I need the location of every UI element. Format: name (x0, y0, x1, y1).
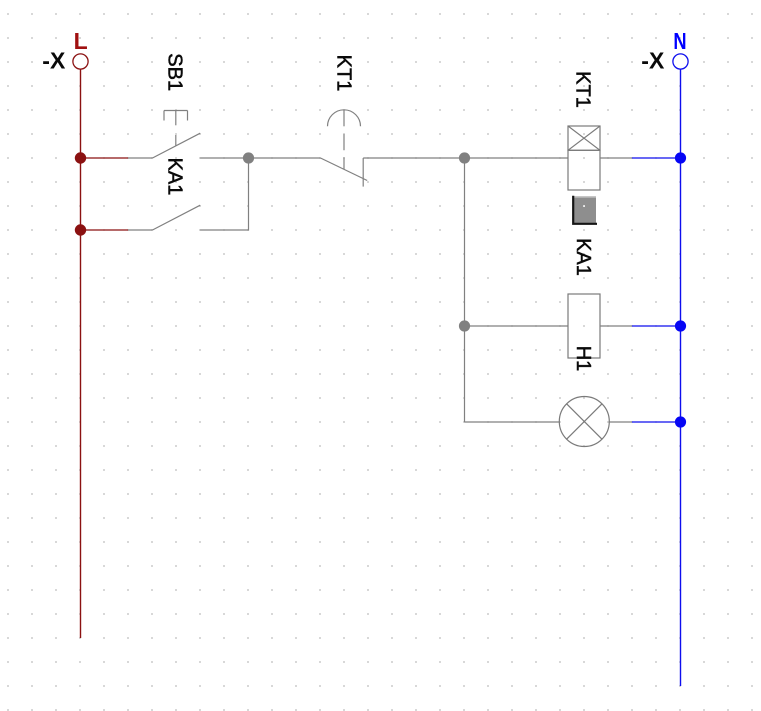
wire L stub row1 (81, 157, 129, 159)
wire SB1 to node A (200, 157, 248, 159)
node A junction (243, 152, 254, 163)
svg-text:KA1: KA1 (572, 238, 594, 276)
junction L rail row2 (75, 224, 86, 235)
wire N stub H1 row (632, 421, 681, 423)
junction N rail H1 row (675, 416, 686, 427)
timed contact KT1 (NC, delay) (321, 110, 368, 187)
svg-text:KT1: KT1 (572, 71, 594, 108)
terminal -X (N side) (673, 54, 688, 69)
relay coil KA1 (568, 294, 600, 358)
wire node B branch down (464, 158, 466, 422)
wire H1 to N stub (609, 421, 632, 423)
node C junction (459, 320, 470, 331)
wire corner to lamp H1 (465, 421, 560, 423)
svg-text:N: N (673, 28, 686, 54)
wire node B to KT1 coil (465, 157, 569, 159)
svg-text:L: L (74, 28, 88, 54)
junction L rail row1 (75, 152, 86, 163)
junction N rail row1 (675, 152, 686, 163)
wire KA1 coil to N stub (600, 325, 632, 327)
junction N rail KA1 row (675, 320, 686, 331)
wire node A to KT1 contact (249, 157, 321, 159)
wire to SB1 (128, 157, 153, 159)
wire KT1 contact to node B (363, 157, 464, 159)
pushbutton SB1 (153, 111, 201, 159)
wire KA1 contact to node A (200, 158, 248, 230)
wire L stub row2 (81, 229, 129, 231)
wire N stub KA1 row (632, 325, 681, 327)
lamp H1 (559, 397, 609, 447)
wire L rail (80, 69, 82, 638)
terminal -X (L side) (73, 54, 88, 69)
timer coil KT1 (568, 126, 600, 190)
svg-text:KA1: KA1 (163, 158, 185, 196)
wire N rail (680, 69, 682, 686)
wire N stub row1 (632, 157, 681, 159)
svg-text:-X: -X (641, 48, 665, 74)
svg-text:SB1: SB1 (164, 53, 186, 91)
svg-text:H1: H1 (572, 346, 594, 372)
svg-text:-X: -X (42, 48, 66, 74)
svg-text:KT1: KT1 (332, 55, 354, 92)
wire node C to KA1 coil (465, 325, 569, 327)
contact KA1 (NO auxiliary) (128, 229, 153, 231)
wire KT1 coil to N stub (600, 157, 632, 159)
timer delay element (gray box) (573, 196, 596, 223)
node B junction (459, 152, 470, 163)
